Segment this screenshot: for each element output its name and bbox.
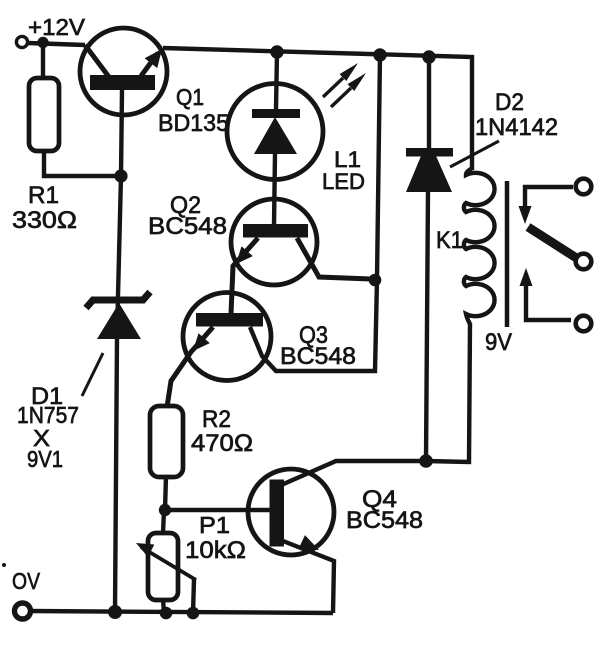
svg-text:Q1: Q1: [176, 84, 204, 110]
wire: +12V terminal to Q1 circle: [28, 43, 85, 45]
resistor R1: [29, 78, 59, 151]
wire: Q1 base down through D1 to 0V rail: [115, 90, 122, 612]
wire: R1 bottom to Q1 base junction: [44, 150, 121, 176]
D1 label: [17, 383, 79, 472]
svg-text:BD135: BD135: [158, 110, 229, 137]
svg-text:D2: D2: [495, 89, 524, 116]
transistor Q2: [231, 199, 317, 285]
junction dot at +12V input: [37, 37, 48, 48]
svg-text:LED: LED: [322, 169, 365, 194]
transistor Q3: [183, 293, 271, 381]
wire: top rail from Q1 emitter to top-right corner down to relay coil: [163, 48, 472, 170]
relay coil K1: [464, 168, 495, 324]
svg-text:BC548: BC548: [148, 213, 227, 240]
svg-text:OV: OV: [12, 568, 41, 594]
Q3 emitter wire with arrow down to R2: [167, 327, 213, 407]
LED light emission arrows: [323, 60, 369, 107]
+12V supply terminal: [16, 36, 27, 47]
relay blade: [528, 227, 578, 259]
wire: junction down to P1: [163, 510, 164, 534]
LED L1: [227, 84, 323, 180]
svg-text:330Ω: 330Ω: [12, 207, 77, 234]
wire: +12V junction down to R1: [41, 42, 45, 79]
svg-text:470Ω: 470Ω: [191, 430, 253, 457]
relay contact: top terminal: [576, 179, 592, 195]
junction dot on top rail at D2: [422, 50, 435, 63]
relay contact: bottom terminal: [576, 316, 592, 332]
relay core bar: [505, 181, 510, 327]
Q2 base lead to right: [297, 238, 371, 279]
svg-text:K1: K1: [436, 227, 463, 254]
R1 label: [12, 182, 77, 234]
wire: 0V rail: [30, 611, 333, 613]
junction dot: P1 wiper on 0V rail: [187, 607, 200, 620]
R2 label: [191, 406, 253, 457]
Q1 label: [158, 84, 229, 137]
wire+arrow: top contact: [519, 187, 574, 224]
svg-text:+12V: +12V: [28, 14, 86, 40]
wire: P1 bottom to 0V rail: [163, 599, 164, 613]
svg-text:P1: P1: [199, 512, 230, 538]
wire+arrow: bottom contact: [520, 268, 572, 320]
Q4 label: [346, 486, 423, 534]
svg-text:R1: R1: [28, 182, 59, 209]
svg-text:BC548: BC548: [280, 343, 356, 370]
svg-text:1N4142: 1N4142: [475, 114, 558, 141]
Q2 emitter wire with arrow into Q3 base: [230, 238, 258, 314]
zener diode D1: [86, 292, 150, 339]
svg-text:9V: 9V: [485, 329, 512, 356]
P1 label: [185, 512, 246, 564]
junction dot: R2 / P1 / Q4 base node: [159, 504, 171, 516]
relay common terminal: [576, 254, 592, 270]
Q3 label: [280, 322, 356, 370]
junction dot: Q1 base / R1 / D1 node: [114, 169, 127, 182]
wire: top rail junction down to D2: [427, 57, 431, 151]
junction dot: Q4 collector / D2 / relay coil node: [419, 454, 433, 468]
L1 label: [322, 147, 365, 194]
transistor Q1: [80, 28, 168, 115]
junction dot: top rail at LED branch: [270, 45, 283, 58]
wire: Q4 emitter down to 0V rail: [283, 541, 334, 613]
junction dot on top rail at D-branch: [373, 48, 386, 61]
wire: top rail down to LED: [276, 52, 277, 109]
resistor R2: [150, 406, 183, 477]
D2 leader line: [450, 141, 499, 167]
svg-text:10kΩ: 10kΩ: [185, 537, 246, 564]
svg-text:R2: R2: [202, 406, 231, 433]
diode D2: [406, 148, 453, 192]
wire: Q4 collector up to relay/diode junction: [279, 461, 426, 486]
wire: vertical from top rail through junction to Q3 base: [250, 55, 380, 371]
junction dot: P1 bottom on 0V rail: [160, 607, 173, 620]
svg-text:9V1: 9V1: [27, 446, 63, 472]
wire: LED to Q2 collector: [274, 154, 275, 225]
potentiometer P1: [133, 533, 196, 613]
Q2 label: [148, 192, 227, 240]
wire: junction to Q4 base: [165, 508, 270, 512]
D2 label: [475, 89, 558, 141]
junction dot: Q2 base node: [369, 274, 382, 287]
wire: D2 anode down to junction: [426, 190, 428, 461]
svg-text:BC548: BC548: [346, 507, 423, 534]
0V terminal: [15, 603, 31, 619]
wire: coil bottom down and left to junction: [426, 323, 470, 462]
speck artifact: [2, 563, 6, 567]
wire: R2 bottom to junction: [165, 476, 166, 510]
transistor Q4: [248, 469, 334, 557]
D1 leader line: [82, 353, 103, 396]
junction dot: D1 branch on 0V rail: [108, 605, 122, 619]
